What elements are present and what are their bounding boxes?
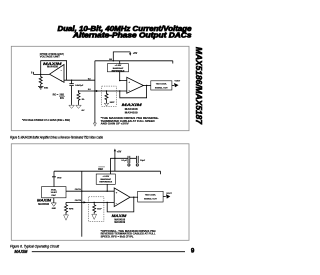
svg-text:REF: REF (98, 168, 103, 171)
svg-text:*VOLTAGE DIVIDER AT A GIVES (5: *VOLTAGE DIVIDER AT A GIVES (50Ω + 50Ω) (22, 119, 70, 122)
svg-text:MAXIM: MAXIM (122, 103, 142, 107)
svg-text:75Ω COAX.: 75Ω COAX. (156, 82, 168, 85)
svg-text:+5V: +5V (133, 52, 138, 55)
svg-text:AND GAIN OF +2V/V: AND GAIN OF +2V/V (101, 123, 130, 126)
svg-text:RO =: RO = (53, 93, 59, 96)
svg-text:MAX4109: MAX4109 (125, 110, 138, 114)
svg-text:*OPTIONAL. THE MAX4108 DRIVES: *OPTIONAL. THE MAX4108 DRIVES 75Ω (101, 230, 156, 233)
svg-text:MAX4109: MAX4109 (114, 221, 125, 224)
svg-text:75Ω COAX.: 75Ω COAX. (145, 194, 157, 197)
svg-text:MAX4108: MAX4108 (125, 107, 138, 111)
svg-text:OUTB: OUTB (75, 200, 82, 202)
svg-text:+1.25V: +1.25V (102, 176, 109, 178)
svg-text:VOUT: VOUT (166, 193, 172, 195)
svg-text:GND: GND (52, 208, 57, 210)
svg-text:REFERENCE: REFERENCE (112, 70, 125, 72)
svg-text:MAXIM: MAXIM (14, 249, 27, 254)
svg-text:10-BIT: 10-BIT (51, 192, 58, 194)
svg-text:SPEED. RFS = 8kΩ (TYP).: SPEED. RFS = 8kΩ (TYP). (101, 236, 134, 238)
svg-text:BANDGAP: BANDGAP (101, 178, 112, 181)
svg-text:MAX4108: MAX4108 (47, 65, 58, 68)
svg-text:Alternate-Phase Output DACs: Alternate-Phase Output DACs (72, 33, 192, 40)
svg-text:OUTA: OUTA (75, 188, 81, 191)
svg-text:Figure 5. MAX4108 Buffer Ampli: Figure 5. MAX4108 Buffer Amplifier Drive… (10, 135, 103, 139)
svg-text:MAX5186/MAX5187: MAX5186/MAX5187 (194, 47, 204, 125)
svg-text:*THE MAX4108 DRIVES 75Ω REVERS: *THE MAX4108 DRIVES 75Ω REVERSE- (101, 117, 159, 120)
svg-text:MAX5186: MAX5186 (38, 203, 49, 206)
svg-text:IFS: IFS (60, 97, 64, 100)
svg-text:VOUT: VOUT (175, 80, 181, 82)
svg-text:TERMINATED CABLES AT FULL SPEE: TERMINATED CABLES AT FULL SPEED (101, 120, 155, 123)
svg-text:1kΩ*: 1kΩ* (97, 209, 102, 211)
svg-text:Figure 6. Typical Operating Ci: Figure 6. Typical Operating Circuit (10, 244, 60, 248)
svg-text:-5V: -5V (81, 110, 85, 112)
svg-text:SIGNAL OUT: SIGNAL OUT (144, 198, 158, 201)
svg-text:SIGNAL OUT: SIGNAL OUT (155, 86, 169, 89)
svg-text:0.1µF: 0.1µF (121, 160, 127, 162)
svg-text:+5V: +5V (117, 151, 122, 154)
svg-text:9: 9 (191, 248, 195, 255)
svg-text:RFS: RFS (69, 209, 74, 211)
svg-text:DUAL: DUAL (51, 188, 58, 191)
svg-text:0.047µF: 0.047µF (75, 84, 84, 87)
svg-text:MAXIM: MAXIM (37, 198, 51, 202)
svg-text:VOLTAGE UNIT: VOLTAGE UNIT (40, 55, 61, 58)
svg-text:10µF: 10µF (140, 160, 146, 162)
svg-text:OPTION: AT NODE A(OUT): OPTION: AT NODE A(OUT) (40, 53, 64, 56)
svg-text:DAC: DAC (52, 194, 57, 197)
svg-text:50Ω*: 50Ω* (110, 102, 115, 104)
svg-text:REFERENCE: REFERENCE (99, 182, 112, 184)
svg-text:VDD: VDD (57, 178, 62, 180)
svg-text:50Ω: 50Ω (44, 88, 48, 90)
svg-text:REVERSE-TERMINATED CABLES AT F: REVERSE-TERMINATED CABLES AT FULL (101, 233, 157, 236)
